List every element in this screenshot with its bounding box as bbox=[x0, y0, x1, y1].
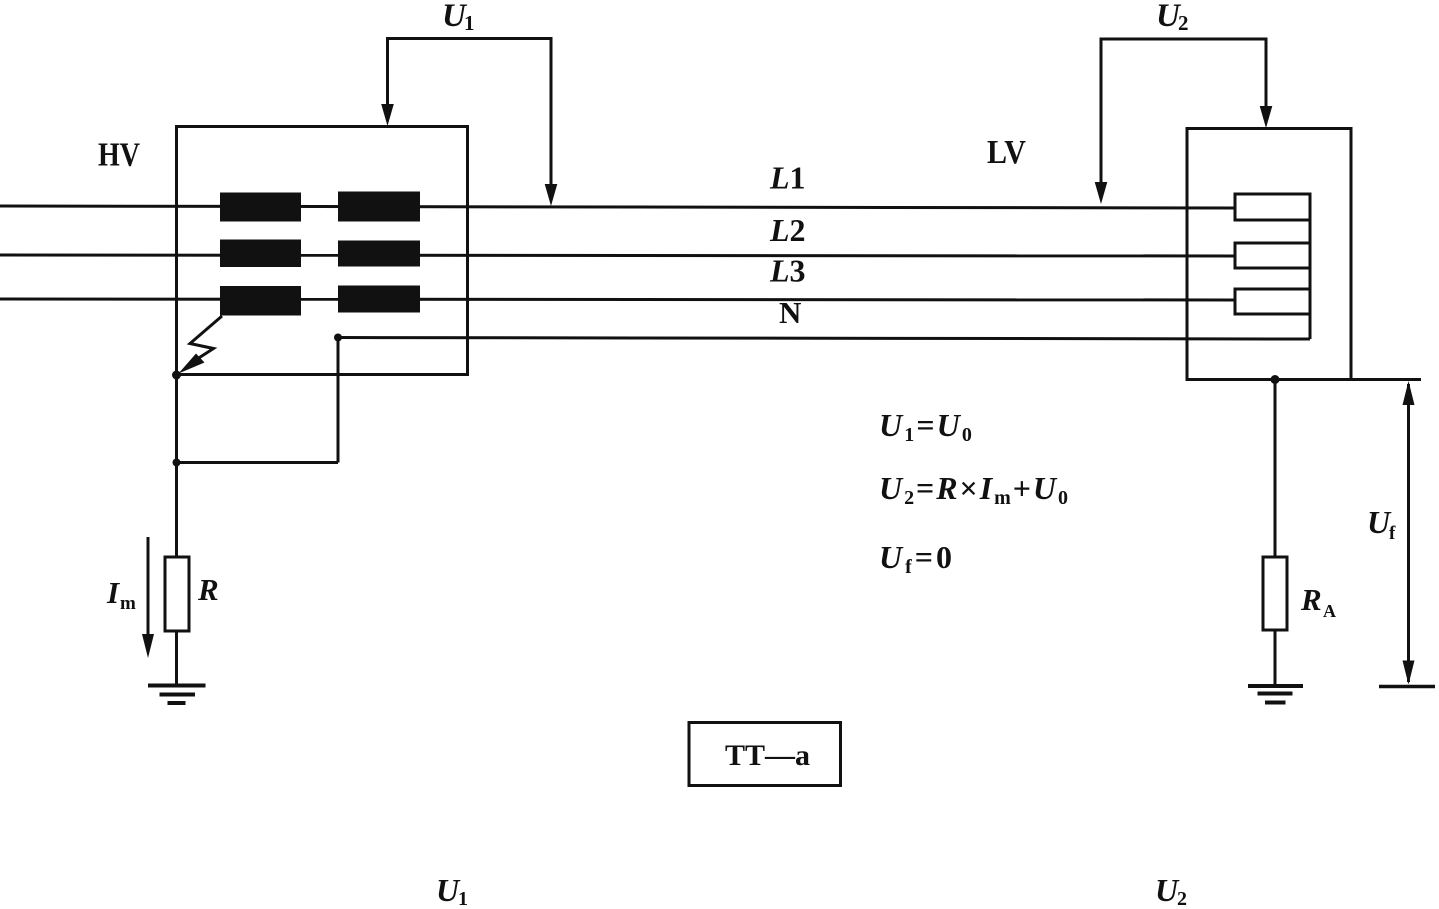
wire L1 bbox=[0, 206, 1235, 208]
HV winding bar row2 right bbox=[338, 241, 420, 267]
svg-text:1: 1 bbox=[464, 11, 475, 35]
resistor RA bbox=[1263, 557, 1287, 630]
wire LV earth drop bbox=[1274, 380, 1277, 558]
LV winding rect L2 bbox=[1235, 243, 1310, 268]
Uf dimension arrow bbox=[1407, 384, 1410, 682]
svg-text:L2: L2 bbox=[769, 212, 806, 248]
svg-text:TT—a: TT—a bbox=[725, 739, 810, 772]
U2 measurement bracket bbox=[1101, 38, 1266, 187]
resistor R bbox=[165, 557, 189, 631]
svg-text:m: m bbox=[120, 593, 136, 614]
fault lightning arrow bbox=[190, 316, 222, 363]
current arrow Im bbox=[147, 537, 150, 638]
node LV earth junction bbox=[1271, 375, 1280, 384]
wire L3 bbox=[0, 299, 1235, 300]
svg-text:U1=U0: U1=U0 bbox=[879, 407, 974, 446]
node HV neutral point bbox=[334, 334, 342, 342]
node earth wire junction bbox=[173, 459, 181, 467]
wire earth drop left bbox=[175, 375, 178, 558]
svg-text:HV: HV bbox=[98, 137, 140, 174]
svg-text:f: f bbox=[1389, 523, 1396, 544]
svg-text:R: R bbox=[197, 572, 219, 607]
LV winding rect L3 bbox=[1235, 289, 1310, 314]
wire N bbox=[338, 338, 1310, 340]
U1 bracket arrowhead onto L1 bbox=[545, 184, 558, 206]
svg-text:R: R bbox=[1300, 582, 1322, 617]
ground (RA earth) bbox=[1248, 686, 1303, 703]
svg-text:2: 2 bbox=[1177, 888, 1187, 909]
wire neutral to earth (left) bbox=[177, 461, 339, 464]
ground (R earth) bbox=[148, 686, 206, 704]
svg-text:Uf=0: Uf=0 bbox=[879, 539, 955, 578]
wire R to ground bbox=[175, 631, 178, 685]
system type box TT-a bbox=[689, 723, 841, 786]
HV winding bar row3 right bbox=[338, 286, 420, 313]
svg-text:2: 2 bbox=[1178, 11, 1189, 35]
HV winding bar row1 right bbox=[338, 192, 420, 222]
HV winding bar row1 left bbox=[220, 193, 301, 222]
U1 bracket arrowhead onto HV box bbox=[381, 104, 394, 126]
U2 bracket arrowhead onto L1 bbox=[1095, 182, 1108, 204]
wire L2 bbox=[0, 255, 1235, 256]
transformer T1 HV enclosure box bbox=[177, 127, 468, 375]
HV winding bar row3 left bbox=[220, 286, 301, 316]
wire LV box bottom extension bbox=[1187, 378, 1421, 381]
svg-text:LV: LV bbox=[987, 134, 1026, 171]
svg-text:N: N bbox=[779, 295, 801, 330]
ground reference line (Uf) bbox=[1379, 685, 1435, 688]
svg-text:I: I bbox=[106, 575, 120, 610]
wire neutral to earth (down) bbox=[337, 338, 340, 463]
U1 measurement bracket bbox=[388, 37, 552, 188]
HV winding bar row2 left bbox=[220, 240, 301, 268]
U2 bracket arrowhead onto LV box bbox=[1260, 106, 1273, 128]
wire LV neutral bus bbox=[1309, 194, 1312, 339]
node fault corner bbox=[172, 371, 181, 380]
LV winding rect L1 bbox=[1235, 194, 1310, 220]
load LV enclosure box bbox=[1187, 129, 1351, 380]
svg-text:1: 1 bbox=[458, 888, 468, 909]
svg-text:L1: L1 bbox=[769, 160, 806, 196]
svg-text:A: A bbox=[1323, 601, 1336, 621]
wire RA to ground bbox=[1274, 630, 1277, 685]
svg-text:L3: L3 bbox=[769, 253, 806, 289]
